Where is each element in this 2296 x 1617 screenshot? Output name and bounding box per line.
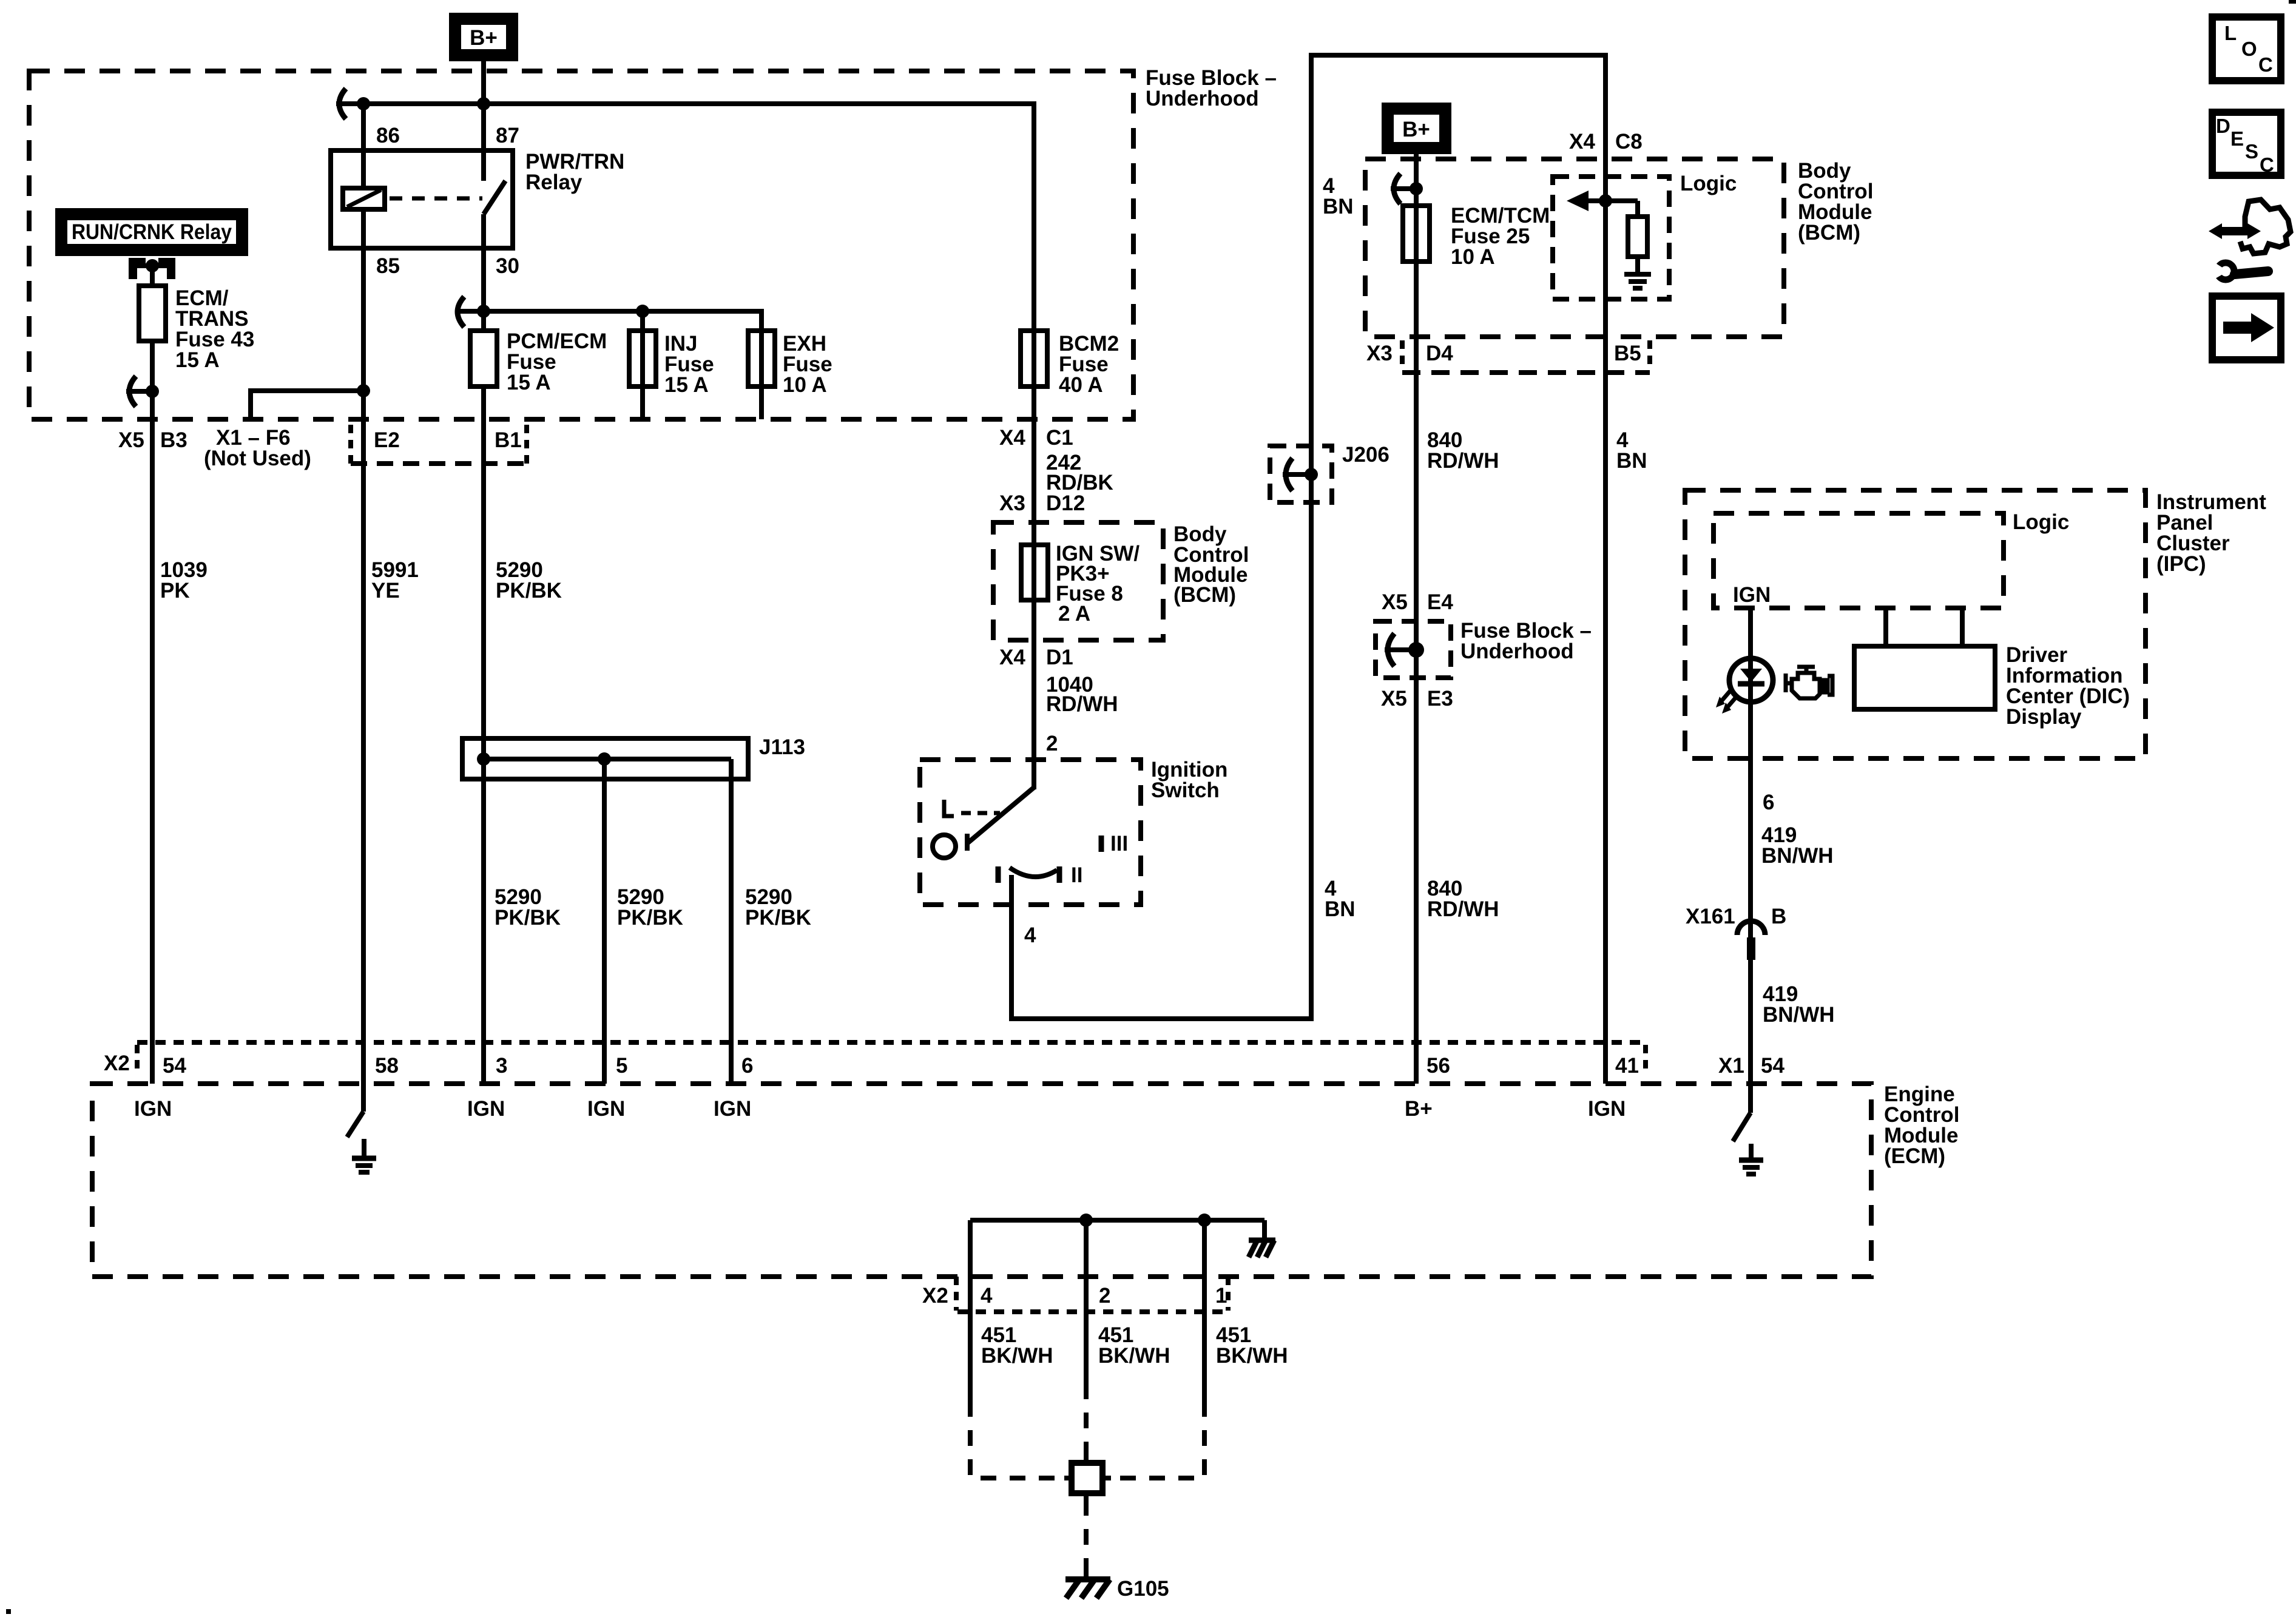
label: Engine Control Module (ECM) bbox=[1884, 1082, 1959, 1168]
label: 1039 PK bbox=[160, 558, 208, 603]
junction dot: relay 86 branch bbox=[357, 97, 370, 110]
dashed lead: pin 2 wire to splice bbox=[1084, 1383, 1089, 1456]
svg-text:IGN: IGN bbox=[467, 1097, 505, 1121]
junction dot: INJ branch bbox=[636, 305, 649, 318]
connector row X3|D12 labels bbox=[999, 491, 1085, 515]
svg-text:C1: C1 bbox=[1046, 426, 1073, 450]
svg-text:Logic: Logic bbox=[1680, 172, 1737, 195]
DIC display box bbox=[1854, 608, 1995, 709]
svg-text:X161: X161 bbox=[1686, 905, 1735, 928]
svg-text:41: 41 bbox=[1615, 1054, 1639, 1078]
inline connector hook on 840 wire bbox=[1391, 174, 1423, 204]
label: 5290 PK/BK (B1 wire) bbox=[496, 558, 562, 603]
svg-text:X2: X2 bbox=[922, 1284, 948, 1308]
connector row X4|C8 labels bbox=[1569, 130, 1643, 154]
label: Ignition Switch bbox=[1151, 758, 1227, 802]
svg-text:E2: E2 bbox=[374, 428, 400, 452]
svg-text:Underhood: Underhood bbox=[1146, 87, 1259, 110]
label: IGN SW/PK3+ Fuse 8 2 A bbox=[1056, 542, 1140, 626]
icon: DESC box bbox=[2212, 112, 2281, 176]
svg-text:X4: X4 bbox=[1569, 130, 1595, 154]
label: PCM/ECM Fuse 15 A bbox=[507, 329, 607, 394]
label: X1 - F6 (Not Used) bbox=[204, 426, 311, 470]
label: 5290 PK/BK (pin 5) bbox=[617, 885, 683, 930]
svg-text:15 A: 15 A bbox=[507, 371, 551, 394]
connector row X4|C1 labels bbox=[999, 426, 1073, 450]
svg-text:(BCM): (BCM) bbox=[1798, 221, 1860, 245]
label: 5290 PK/BK (pin 6) bbox=[745, 885, 811, 930]
svg-text:C: C bbox=[2258, 53, 2273, 76]
connector row X1|54 labels bbox=[1718, 1054, 1784, 1078]
svg-text:X5: X5 bbox=[118, 428, 144, 452]
relay actuation dashed link bbox=[390, 197, 482, 201]
J113 internal bus bbox=[477, 752, 731, 766]
svg-text:4: 4 bbox=[981, 1284, 993, 1308]
svg-text:1: 1 bbox=[1215, 1284, 1227, 1308]
wire: fuse 43 to ECM pin 54 (1039 PK) bbox=[150, 341, 155, 1084]
svg-text:87: 87 bbox=[496, 124, 519, 147]
svg-text:BN/WH: BN/WH bbox=[1763, 1003, 1835, 1027]
wire: INJ fuse drop bbox=[640, 311, 645, 419]
svg-text:B+: B+ bbox=[470, 26, 498, 50]
splice junction block bbox=[1064, 1456, 1111, 1500]
chassis ground G105 bbox=[1065, 1570, 1110, 1598]
inline connector hook at fuse bus bbox=[458, 297, 464, 327]
page corner mark top right bbox=[2289, 0, 2296, 4]
wire: IGN feed down to ECM pin 41 (4 BN) bbox=[1603, 55, 1608, 1084]
svg-text:X3: X3 bbox=[1366, 342, 1393, 365]
svg-text:Switch: Switch bbox=[1151, 778, 1220, 802]
svg-text:C8: C8 bbox=[1615, 130, 1643, 154]
ignition switch contact circle bbox=[933, 835, 956, 858]
svg-text:54: 54 bbox=[1761, 1054, 1784, 1078]
svg-text:B+: B+ bbox=[1405, 1097, 1433, 1121]
svg-text:IGN: IGN bbox=[1588, 1097, 1626, 1121]
svg-text:6: 6 bbox=[1763, 791, 1774, 814]
ECM internal switch at pin 58 bbox=[347, 1084, 363, 1137]
svg-text:BN: BN bbox=[1325, 897, 1356, 921]
svg-text:PK/BK: PK/BK bbox=[496, 579, 562, 603]
engine MIL icon bbox=[1786, 667, 1832, 698]
IPC enclosure bbox=[1685, 490, 2146, 758]
page corner mark bottom left bbox=[6, 1609, 11, 1614]
label: 5290 PK/BK (pin 3) bbox=[495, 885, 561, 930]
svg-text:Relay: Relay bbox=[525, 170, 582, 194]
wire: relay 30 down to PCM/ECM fuse bbox=[481, 214, 486, 331]
fuse block underhood enclosure bbox=[29, 71, 1133, 419]
connector row X3|D4|B5 bbox=[1366, 340, 1650, 373]
label: 419 BN/WH (top) bbox=[1761, 823, 1834, 868]
fuse EXH bbox=[748, 331, 775, 387]
svg-text:56: 56 bbox=[1427, 1054, 1450, 1078]
svg-text:(ECM): (ECM) bbox=[1884, 1144, 1945, 1168]
wire: B+ down to relay 87 bbox=[481, 61, 486, 181]
svg-text:30: 30 bbox=[496, 254, 519, 278]
svg-text:D: D bbox=[2216, 115, 2230, 137]
power terminal B+ (feed bus) bbox=[455, 19, 512, 55]
svg-text:RD/WH: RD/WH bbox=[1046, 692, 1118, 716]
svg-text:4: 4 bbox=[1024, 923, 1036, 947]
ECM internal switch at pin 54/X1 bbox=[1733, 1084, 1751, 1141]
svg-text:15 A: 15 A bbox=[664, 373, 709, 397]
chassis ground (ECM internal) bbox=[1249, 1240, 1275, 1257]
label: Driver Information Center (DIC) Display bbox=[2006, 643, 2130, 729]
label: ECM/TCM Fuse 25 10 A bbox=[1451, 204, 1550, 269]
label: Fuse Block - Underhood 2 bbox=[1460, 619, 1592, 663]
connector X2 bottom row bbox=[956, 1277, 1230, 1312]
icon: LOC box bbox=[2212, 17, 2281, 81]
svg-text:54: 54 bbox=[163, 1054, 186, 1078]
connector row X4|D1 labels bbox=[999, 646, 1073, 669]
RUN/CRNK Relay label box bbox=[61, 214, 242, 250]
svg-text:E3: E3 bbox=[1427, 687, 1453, 711]
wire: relay coil 86 bbox=[361, 104, 366, 188]
fuse ECM/TCM Fuse 25 bbox=[1403, 206, 1430, 262]
svg-text:85: 85 bbox=[376, 254, 400, 278]
BCM enclosure (right) bbox=[1365, 159, 1784, 337]
IPC logic box bbox=[1714, 513, 2004, 608]
svg-text:J206: J206 bbox=[1342, 443, 1389, 467]
svg-text:X5: X5 bbox=[1381, 687, 1407, 711]
RUN/CRNK relay output terminal bbox=[129, 258, 175, 279]
fuse IGN SW/PK3+ Fuse 8 bbox=[1021, 545, 1048, 600]
wire: B+ down through ECM/TCM fuse to ECM pin 56 (840 RD/WH) bbox=[1414, 154, 1419, 1084]
svg-text:X3: X3 bbox=[999, 491, 1025, 515]
svg-text:RD/WH: RD/WH bbox=[1427, 449, 1499, 473]
svg-text:PK/BK: PK/BK bbox=[617, 906, 683, 930]
ground (BCM logic) bbox=[1624, 274, 1651, 288]
branch to X1-F6 not used terminal bbox=[251, 384, 370, 422]
svg-text:C: C bbox=[2260, 154, 2274, 176]
svg-text:Logic: Logic bbox=[2013, 510, 2069, 534]
svg-text:O: O bbox=[2241, 38, 2257, 60]
svg-text:BK/WH: BK/WH bbox=[1216, 1344, 1288, 1368]
fuse block underhood 2 enclosure bbox=[1376, 621, 1451, 678]
J206 connector bbox=[1270, 446, 1332, 502]
svg-text:B: B bbox=[1771, 905, 1786, 928]
svg-text:(BCM): (BCM) bbox=[1173, 583, 1236, 607]
fuse BCM2 bbox=[1021, 331, 1047, 387]
dashed wire: splice to G105 bbox=[1084, 1500, 1089, 1576]
ignition position arc bbox=[1010, 868, 1057, 877]
svg-text:III: III bbox=[1110, 832, 1128, 856]
svg-text:RD/WH: RD/WH bbox=[1427, 897, 1499, 921]
ECM internal ground bus bbox=[970, 1214, 1264, 1240]
label: Body Control Module (BCM) right bbox=[1798, 159, 1873, 245]
svg-text:RUN/CRNK Relay: RUN/CRNK Relay bbox=[72, 220, 232, 244]
inline connector hook on 1039 wire bbox=[126, 376, 159, 407]
svg-text:II: II bbox=[1071, 863, 1082, 887]
wire: RUN/CRNK output to fuse 43 bbox=[150, 266, 155, 286]
svg-text:5: 5 bbox=[616, 1054, 627, 1078]
svg-text:Underhood: Underhood bbox=[1460, 640, 1574, 663]
svg-text:86: 86 bbox=[376, 124, 400, 147]
svg-text:PK/BK: PK/BK bbox=[495, 906, 561, 930]
ECM enclosure bbox=[92, 1084, 1871, 1277]
svg-text:X5: X5 bbox=[1382, 590, 1408, 614]
connector X2 dotted line (ECM top) bbox=[137, 1042, 1646, 1075]
wire: ignition pin 4 down and across bbox=[1011, 875, 1311, 1019]
label: PWR/TRN Relay bbox=[525, 150, 624, 194]
ignition switch OFF position mark bbox=[944, 800, 1000, 816]
ignition position III tick and label bbox=[1101, 832, 1128, 856]
label: Fuse Block - Underhood bbox=[1146, 66, 1277, 110]
svg-text:X2: X2 bbox=[104, 1052, 130, 1075]
svg-text:IGN: IGN bbox=[134, 1097, 172, 1121]
fuse ECM/TRANS Fuse 43 bbox=[139, 286, 166, 341]
dashed lead: pin 4 wire to splice bbox=[970, 1401, 1064, 1478]
fuse INJ bbox=[629, 331, 656, 387]
svg-text:2 A: 2 A bbox=[1058, 602, 1090, 626]
svg-text:10 A: 10 A bbox=[1451, 245, 1495, 269]
ground (ECM pin 58) bbox=[352, 1139, 376, 1172]
inline connector hook at feed bus left end bbox=[339, 89, 346, 119]
svg-text:D12: D12 bbox=[1046, 491, 1085, 515]
wire: PCM/ECM fuse down through J113 to ECM pin 3 (5290 PK/BK) bbox=[481, 387, 486, 1084]
svg-text:10 A: 10 A bbox=[783, 373, 827, 397]
svg-text:YE: YE bbox=[371, 579, 400, 603]
power terminal B+ (BCM feed) bbox=[1388, 109, 1445, 148]
J113 splice pack box bbox=[462, 738, 748, 779]
pull-down resistor (BCM logic) bbox=[1628, 201, 1647, 274]
label: 4 BN (J206 wire lower) bbox=[1325, 877, 1356, 921]
svg-text:IGN: IGN bbox=[714, 1097, 751, 1121]
svg-text:X4: X4 bbox=[999, 646, 1025, 669]
svg-text:(IPC): (IPC) bbox=[2156, 552, 2206, 576]
svg-text:D1: D1 bbox=[1046, 646, 1073, 669]
fuse PCM/ECM bbox=[470, 331, 497, 387]
MIL indicator LED bbox=[1716, 658, 1773, 714]
label: Body Control Module (BCM) middle bbox=[1173, 522, 1249, 607]
svg-text:B+: B+ bbox=[1402, 118, 1430, 141]
wire: ECM ground pin 1 bbox=[1202, 1220, 1207, 1401]
svg-text:PK: PK bbox=[160, 579, 190, 603]
svg-text:Display: Display bbox=[2006, 705, 2082, 729]
svg-text:PK/BK: PK/BK bbox=[745, 906, 811, 930]
junction dot: B+ at feed bus bbox=[477, 97, 490, 110]
svg-text:B3: B3 bbox=[160, 428, 187, 452]
label: 451 BK/WH (pin 2) bbox=[1098, 1323, 1170, 1368]
ignition position II tick and label bbox=[1059, 863, 1082, 887]
svg-text:B5: B5 bbox=[1614, 342, 1641, 365]
icon: diagnostic car with arrow and wrench bbox=[2209, 200, 2291, 281]
ground (ECM X1-54) bbox=[1739, 1144, 1763, 1174]
wire: relay 85 down to ECM pin 58 (5991 YE) bbox=[361, 248, 366, 1084]
wire: J113 to ECM pin 5 bbox=[602, 759, 607, 1084]
svg-text:E4: E4 bbox=[1427, 590, 1453, 614]
logic input arrow bbox=[1567, 191, 1638, 211]
svg-text:X4: X4 bbox=[999, 426, 1025, 450]
svg-text:B1: B1 bbox=[495, 428, 522, 452]
svg-text:2: 2 bbox=[1099, 1284, 1110, 1308]
svg-text:G105: G105 bbox=[1117, 1577, 1169, 1601]
connector X161 bbox=[1686, 905, 1786, 960]
connector X5 dashed sub-box (E2/B1 row) bbox=[351, 425, 527, 466]
svg-text:40 A: 40 A bbox=[1059, 373, 1103, 397]
inline connector in fuse block 2 bbox=[1385, 633, 1424, 666]
wire: EXH fuse drop bbox=[759, 331, 764, 419]
svg-text:IGN: IGN bbox=[587, 1097, 625, 1121]
wire: IGN to MIL LED down to ECM pin 54 (419 BN/WH) bbox=[1748, 608, 1753, 1084]
label: 1040 RD/WH bbox=[1046, 673, 1118, 716]
svg-text:BN/WH: BN/WH bbox=[1761, 844, 1834, 868]
ignition position I tick bbox=[996, 866, 1001, 883]
svg-text:BK/WH: BK/WH bbox=[1098, 1344, 1170, 1368]
label: 419 BN/WH (lower) bbox=[1763, 982, 1835, 1027]
svg-text:J113: J113 bbox=[759, 735, 805, 759]
ignition switch blade contact tick bbox=[965, 834, 970, 851]
svg-text:58: 58 bbox=[375, 1054, 399, 1078]
icon: forward arrow box bbox=[2212, 296, 2281, 360]
label: Instrument Panel Cluster (IPC) bbox=[2156, 490, 2266, 576]
wire: fuse bus to INJ and EXH bbox=[456, 311, 761, 331]
svg-text:X1: X1 bbox=[1718, 1054, 1744, 1078]
label: 4 BN (IGN riser top) bbox=[1616, 428, 1647, 473]
wire: ECM ground pin 2 bbox=[1084, 1220, 1089, 1383]
label: EXH Fuse 10 A bbox=[783, 332, 832, 397]
relay coil bbox=[343, 188, 385, 248]
junction dot: wire 30 at fuse bus bbox=[477, 305, 490, 318]
label: 4 BN (J206 wire top) bbox=[1323, 174, 1354, 218]
svg-text:15 A: 15 A bbox=[175, 348, 220, 372]
wire: feed bus corner down through BCM2 fuse to ignition switch bbox=[1032, 101, 1036, 789]
svg-text:2: 2 bbox=[1046, 732, 1058, 755]
svg-text:D4: D4 bbox=[1426, 342, 1453, 365]
label: ECM/TRANS Fuse 43 15 A bbox=[175, 286, 254, 372]
svg-text:IGN: IGN bbox=[1733, 583, 1771, 607]
connector row X5|E4 labels bbox=[1382, 590, 1453, 614]
svg-text:6: 6 bbox=[741, 1054, 753, 1078]
wire: J113 to ECM pin 6 bbox=[729, 759, 734, 1084]
svg-text:BK/WH: BK/WH bbox=[981, 1344, 1053, 1368]
relay PWR/TRN box bbox=[331, 150, 513, 248]
label: 242 RD/BK bbox=[1046, 451, 1113, 495]
svg-text:3: 3 bbox=[496, 1054, 507, 1078]
label: 5991 YE bbox=[371, 558, 419, 603]
label: INJ Fuse 15 A bbox=[664, 332, 714, 397]
label: 840 RD/WH (top) bbox=[1427, 428, 1499, 473]
label: BCM2 Fuse 40 A bbox=[1059, 332, 1119, 397]
ignition switch enclosure bbox=[920, 760, 1141, 905]
BCM logic box bbox=[1553, 177, 1669, 299]
ignition switch blade bbox=[967, 787, 1035, 843]
dashed lead: pin 1 wire to splice bbox=[1111, 1401, 1204, 1478]
wire: top bus of riser bbox=[1309, 53, 1608, 58]
svg-text:(Not Used): (Not Used) bbox=[204, 447, 311, 470]
connector row X5|B3 labels bbox=[118, 428, 187, 452]
wire: feed bus bbox=[336, 101, 1034, 106]
relay switch blade (87-30) bbox=[484, 181, 505, 214]
svg-text:S: S bbox=[2245, 140, 2258, 163]
connector row X5|E3 labels bbox=[1381, 687, 1453, 711]
label: 840 RD/WH (lower) bbox=[1427, 877, 1499, 921]
svg-text:BN: BN bbox=[1323, 195, 1354, 218]
svg-text:E: E bbox=[2230, 127, 2244, 150]
svg-text:L: L bbox=[2224, 22, 2237, 44]
label: 451 BK/WH (pin 4) bbox=[981, 1323, 1053, 1368]
svg-text:BN: BN bbox=[1616, 449, 1647, 473]
wire: B+ riser through J206 bbox=[1309, 55, 1314, 1021]
wire: ECM ground pin 4 bbox=[968, 1220, 973, 1401]
BCM fuse-8 enclosure bbox=[993, 522, 1163, 640]
label: 451 BK/WH (pin 1) bbox=[1216, 1323, 1288, 1368]
